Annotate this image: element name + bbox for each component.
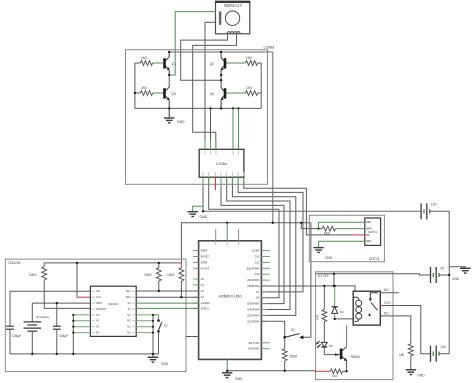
stepper motor M1 NEMA17 xyxy=(208,2,250,43)
svg-text:GND: GND xyxy=(200,215,208,219)
bottom GND rail xyxy=(227,370,314,372)
DS3231 module box xyxy=(5,259,186,372)
wire 5V to switch S1 xyxy=(303,223,311,337)
wire motor coil A+ to bridge left midpoint xyxy=(169,12,216,75)
wire right base rail xyxy=(260,63,262,108)
svg-text:(D3)/PWM: (D3)/PWM xyxy=(247,313,259,317)
5V rail from Arduino 5V pin xyxy=(181,223,311,259)
Arduino Uno U1 xyxy=(199,241,262,360)
svg-text:VDD: VDD xyxy=(366,222,371,224)
transistor Q1 xyxy=(163,52,176,75)
ground (DS3231) xyxy=(148,354,169,366)
svg-text:NC: NC xyxy=(366,235,370,237)
svg-text:A5/SCL: A5/SCL xyxy=(201,306,210,310)
wire L298n pin1 to ground xyxy=(202,177,204,211)
svg-text:NC: NC xyxy=(384,311,389,315)
L298n top pin green stubs xyxy=(205,141,216,149)
DS3231 ground rail xyxy=(10,353,159,355)
relay pin VCC to 24V xyxy=(380,306,430,354)
junction dots (DS3231) xyxy=(31,262,183,355)
svg-text:GND: GND xyxy=(235,377,243,381)
wire motor coil B+ to bridge right midpoint xyxy=(181,34,228,80)
transistor Q4 xyxy=(210,85,227,108)
svg-text:GND: GND xyxy=(161,362,169,366)
resistor R4 1K0 xyxy=(226,86,262,96)
wire VCC down to chip pin2 xyxy=(76,263,78,297)
wire rail to right GND xyxy=(449,267,465,269)
svg-text:(D8)/PWM: (D8)/PWM xyxy=(247,284,259,288)
svg-text:AREF: AREF xyxy=(201,249,208,253)
svg-text:D1: D1 xyxy=(329,344,333,348)
right supply rail xyxy=(448,211,450,353)
wire chip pin1 to left rail xyxy=(10,291,90,326)
svg-text:A4/SDA: A4/SDA xyxy=(201,301,210,305)
svg-text:104µF: 104µF xyxy=(59,334,68,338)
resistor 180 ohm xyxy=(399,344,413,370)
svg-text:24V: 24V xyxy=(441,345,448,349)
DHT11 sensor component xyxy=(365,218,381,245)
resistor R2 1K0 xyxy=(226,56,262,66)
svg-text:SDA: SDA xyxy=(126,296,131,299)
junction dot 9V on rail xyxy=(448,274,450,276)
diode bottom rail to relay xyxy=(335,318,354,320)
resistor 10K0 (SDA pullup) xyxy=(167,263,184,297)
junction dots (KY019) xyxy=(323,273,348,373)
svg-text:A1: A1 xyxy=(201,283,205,287)
wire Arduino pin to switch S1 xyxy=(261,321,284,337)
left NC bus xyxy=(73,315,90,333)
wire chip to Arduino A5 xyxy=(136,307,198,309)
DHT11 module box xyxy=(309,215,384,261)
LED D1 xyxy=(316,341,333,355)
wire L298n pin up to bridge rail (green) xyxy=(238,108,240,149)
bridge top supply rail xyxy=(169,51,273,53)
svg-text:A0: A0 xyxy=(201,277,205,281)
transistor S8550 xyxy=(340,325,360,371)
svg-text:1K0: 1K0 xyxy=(316,314,320,320)
svg-text:D2: D2 xyxy=(340,310,344,314)
wire left base rail xyxy=(134,63,136,108)
wire L298n pin up to bridge rail (green) xyxy=(232,108,234,149)
svg-text:104µF: 104µF xyxy=(12,334,21,338)
svg-text:10K0: 10K0 xyxy=(29,273,37,277)
Arduino top pin stubs xyxy=(215,229,217,241)
svg-text:NC: NC xyxy=(96,332,100,335)
svg-text:NC: NC xyxy=(127,314,131,317)
Arduino right pin stubs xyxy=(261,251,270,349)
wire 9V to module VCC tap xyxy=(316,274,431,275)
wire motor coil B- to L298n pin3 xyxy=(193,34,237,149)
svg-text:D6: D6 xyxy=(256,296,260,300)
ground (bridge) xyxy=(164,108,185,124)
Arduino left pin stubs xyxy=(193,251,199,269)
svg-text:(D0)/RXD: (D0)/RXD xyxy=(248,347,259,351)
svg-text:5V/3V3: 5V/3V3 xyxy=(201,266,210,270)
ground (DHT11) xyxy=(313,248,332,260)
svg-text:(D1)/TXD: (D1)/TXD xyxy=(248,341,259,345)
wire GND to 12V battery xyxy=(203,210,421,212)
svg-text:32K: 32K xyxy=(96,290,101,293)
svg-text:Q3: Q3 xyxy=(172,92,176,96)
svg-text:330Ω: 330Ω xyxy=(290,355,298,359)
svg-text:DS3231: DS3231 xyxy=(9,261,21,265)
svg-text:Q2: Q2 xyxy=(210,62,214,66)
svg-text:(D9)/PWM: (D9)/PWM xyxy=(247,278,259,282)
svg-text:S1: S1 xyxy=(291,328,295,332)
KY-019 relay module box xyxy=(316,272,393,380)
svg-text:Q1: Q1 xyxy=(172,62,176,66)
svg-text:GND: GND xyxy=(177,120,185,124)
svg-text:1K0: 1K0 xyxy=(141,86,147,90)
wire L298n pin up to bridge rail xyxy=(210,108,212,149)
junction dots (mid) xyxy=(226,222,320,230)
svg-text:VREF: VREF xyxy=(201,260,208,264)
svg-text:L298a: L298a xyxy=(264,46,275,50)
svg-text:10K0: 10K0 xyxy=(167,273,175,277)
svg-text:L298n: L298n xyxy=(216,161,227,166)
red jog from GND rail xyxy=(314,370,316,373)
svg-text:NC: NC xyxy=(96,314,100,317)
svg-text:D13: D13 xyxy=(255,255,260,259)
svg-text:1K0: 1K0 xyxy=(246,56,252,60)
svg-text:NC: NC xyxy=(96,326,100,329)
wire chip SCL to Arduino xyxy=(136,290,198,292)
ground (below L298n) xyxy=(188,212,208,219)
battery 12V xyxy=(421,203,449,220)
H-bridge module box L298a xyxy=(126,50,268,185)
wire motor coil A- down to L298n pin xyxy=(205,22,216,149)
5V drop to DS3231 pullups (red) xyxy=(180,259,182,264)
resistor 10K0 (SQW pullup) xyxy=(29,263,90,309)
svg-text:(D11)/PWM: (D11)/PWM xyxy=(246,266,259,270)
svg-text:S8550: S8550 xyxy=(351,355,360,359)
wire DHT NC red stub xyxy=(352,234,365,236)
svg-text:DHT11: DHT11 xyxy=(369,257,380,261)
resistor R3 1K0 xyxy=(135,86,163,96)
battery 9V xyxy=(431,266,450,283)
ground (below Arduino) xyxy=(222,371,243,381)
ground (180 ohm) xyxy=(406,370,426,378)
svg-text:NEMA17: NEMA17 xyxy=(224,3,242,8)
capacitor C2 104uF xyxy=(53,303,68,354)
svg-text:10K0: 10K0 xyxy=(144,273,152,277)
svg-text:NO: NO xyxy=(384,288,389,292)
svg-text:+: + xyxy=(230,7,232,11)
svg-text:5K0: 5K0 xyxy=(324,232,330,236)
svg-text:D12: D12 xyxy=(255,260,260,264)
capacitor C1 104uF xyxy=(6,326,21,354)
svg-text:D10: D10 xyxy=(255,272,260,276)
svg-text:GND: GND xyxy=(418,374,426,378)
Arduino bottom GND pin wire xyxy=(226,359,228,370)
wire stub to Arduino lower left xyxy=(186,336,199,338)
VCC rail to pullups xyxy=(44,262,181,264)
svg-text:A3: A3 xyxy=(201,295,205,299)
switch S2 xyxy=(153,315,168,354)
junction dots (bridge) xyxy=(134,51,240,110)
driver chip U2 L298n xyxy=(199,149,244,177)
svg-text:VBAT: VBAT xyxy=(96,302,103,305)
resistor 5K0 xyxy=(319,226,365,235)
svg-text:SQW/INT: SQW/INT xyxy=(96,308,107,311)
wire left midpoint Q1-Q3 xyxy=(168,75,170,85)
svg-text:KY-019: KY-019 xyxy=(318,274,329,278)
svg-text:VCC: VCC xyxy=(96,296,101,299)
wire DHT VDD xyxy=(319,222,365,228)
svg-text:(D4)/PWM: (D4)/PWM xyxy=(247,308,259,312)
wire 5V to DHT11 xyxy=(301,223,318,229)
junction dots (arduino area) xyxy=(226,336,286,372)
svg-text:DS3231: DS3231 xyxy=(108,302,119,306)
switch S1 xyxy=(283,328,303,339)
right NC bus xyxy=(136,315,153,333)
wire chip to Arduino A4 xyxy=(136,302,198,304)
transistor Q3 xyxy=(163,85,176,108)
svg-text:GND: GND xyxy=(366,241,371,243)
svg-text:3V battery: 3V battery xyxy=(36,315,50,319)
svg-text:SCL: SCL xyxy=(126,290,131,293)
module VCC rail xyxy=(333,274,335,286)
svg-text:RESET: RESET xyxy=(201,255,210,259)
resistor 1K0 (base) xyxy=(315,369,347,378)
Arduino pin name labels xyxy=(201,249,210,300)
svg-text:Arduino Uno: Arduino Uno xyxy=(218,293,242,298)
wire chip SDA to Arduino xyxy=(136,296,198,298)
ground (right rail) xyxy=(452,268,471,281)
wire L298n pin4 to Arduino xyxy=(221,177,284,303)
wire DHT GND xyxy=(319,241,365,247)
RTC chip DS3231 xyxy=(90,286,136,336)
wire LED to transistor base xyxy=(324,354,340,356)
svg-text:S2: S2 xyxy=(164,324,168,328)
svg-text:NC: NC xyxy=(127,326,131,329)
bridge emitter bottom rail xyxy=(135,107,261,109)
svg-text:1K0: 1K0 xyxy=(246,86,252,90)
svg-text:D13/R: D13/R xyxy=(252,249,259,253)
diode D2 xyxy=(332,286,344,319)
battery 24V xyxy=(431,345,450,362)
relay RL1 xyxy=(353,291,380,325)
wire right midpoint Q2-Q4 xyxy=(220,75,222,85)
relay pin NC to 180 ohm xyxy=(380,316,411,344)
svg-text:GND: GND xyxy=(325,256,333,260)
power stub (red) L298n pin3 xyxy=(214,177,216,190)
svg-text:NC: NC xyxy=(127,332,131,335)
wire battery top to chip VBAT xyxy=(32,302,90,304)
resistor R1 1K0 xyxy=(135,56,163,66)
svg-text:NC: NC xyxy=(96,320,100,323)
svg-text:D7: D7 xyxy=(256,290,260,294)
red VCC stub chip pin2 xyxy=(77,296,90,298)
svg-text:1K0: 1K0 xyxy=(141,56,147,60)
svg-text:VCC: VCC xyxy=(384,301,391,305)
svg-text:1K0: 1K0 xyxy=(332,374,338,378)
relay pin NO xyxy=(380,292,399,294)
svg-text:DATA: DATA xyxy=(366,228,372,231)
svg-text:(D5)/PWM: (D5)/PWM xyxy=(247,302,259,306)
svg-text:A2: A2 xyxy=(201,289,205,293)
svg-text:12V: 12V xyxy=(431,203,438,207)
L298n bottom pin green stubs xyxy=(203,177,244,185)
svg-text:Q4: Q4 xyxy=(210,92,214,96)
resistor 1K0 (LED) xyxy=(316,286,327,343)
wire L298n pin7 to Arduino xyxy=(238,177,303,292)
wire L298n pin8 to Arduino xyxy=(244,177,352,235)
svg-text:GND: GND xyxy=(452,277,460,281)
svg-text:NC: NC xyxy=(127,320,131,323)
battery B1 3V xyxy=(24,303,51,354)
svg-text:(D2)/PWM: (D2)/PWM xyxy=(247,319,259,323)
wire L298n pin2 to Arduino D13 xyxy=(209,177,279,298)
transistor Q2 xyxy=(210,52,227,75)
svg-text:180: 180 xyxy=(399,353,405,357)
resistor 330 ohm xyxy=(282,337,298,371)
wire L298n pin5 to Arduino xyxy=(227,177,290,309)
wire L298n pin6 to Arduino xyxy=(232,177,295,315)
resistor 10K0 (SCL pullup) xyxy=(144,263,161,291)
svg-text:+: + xyxy=(221,38,223,42)
wire 12V supply to bridge xyxy=(272,52,274,223)
